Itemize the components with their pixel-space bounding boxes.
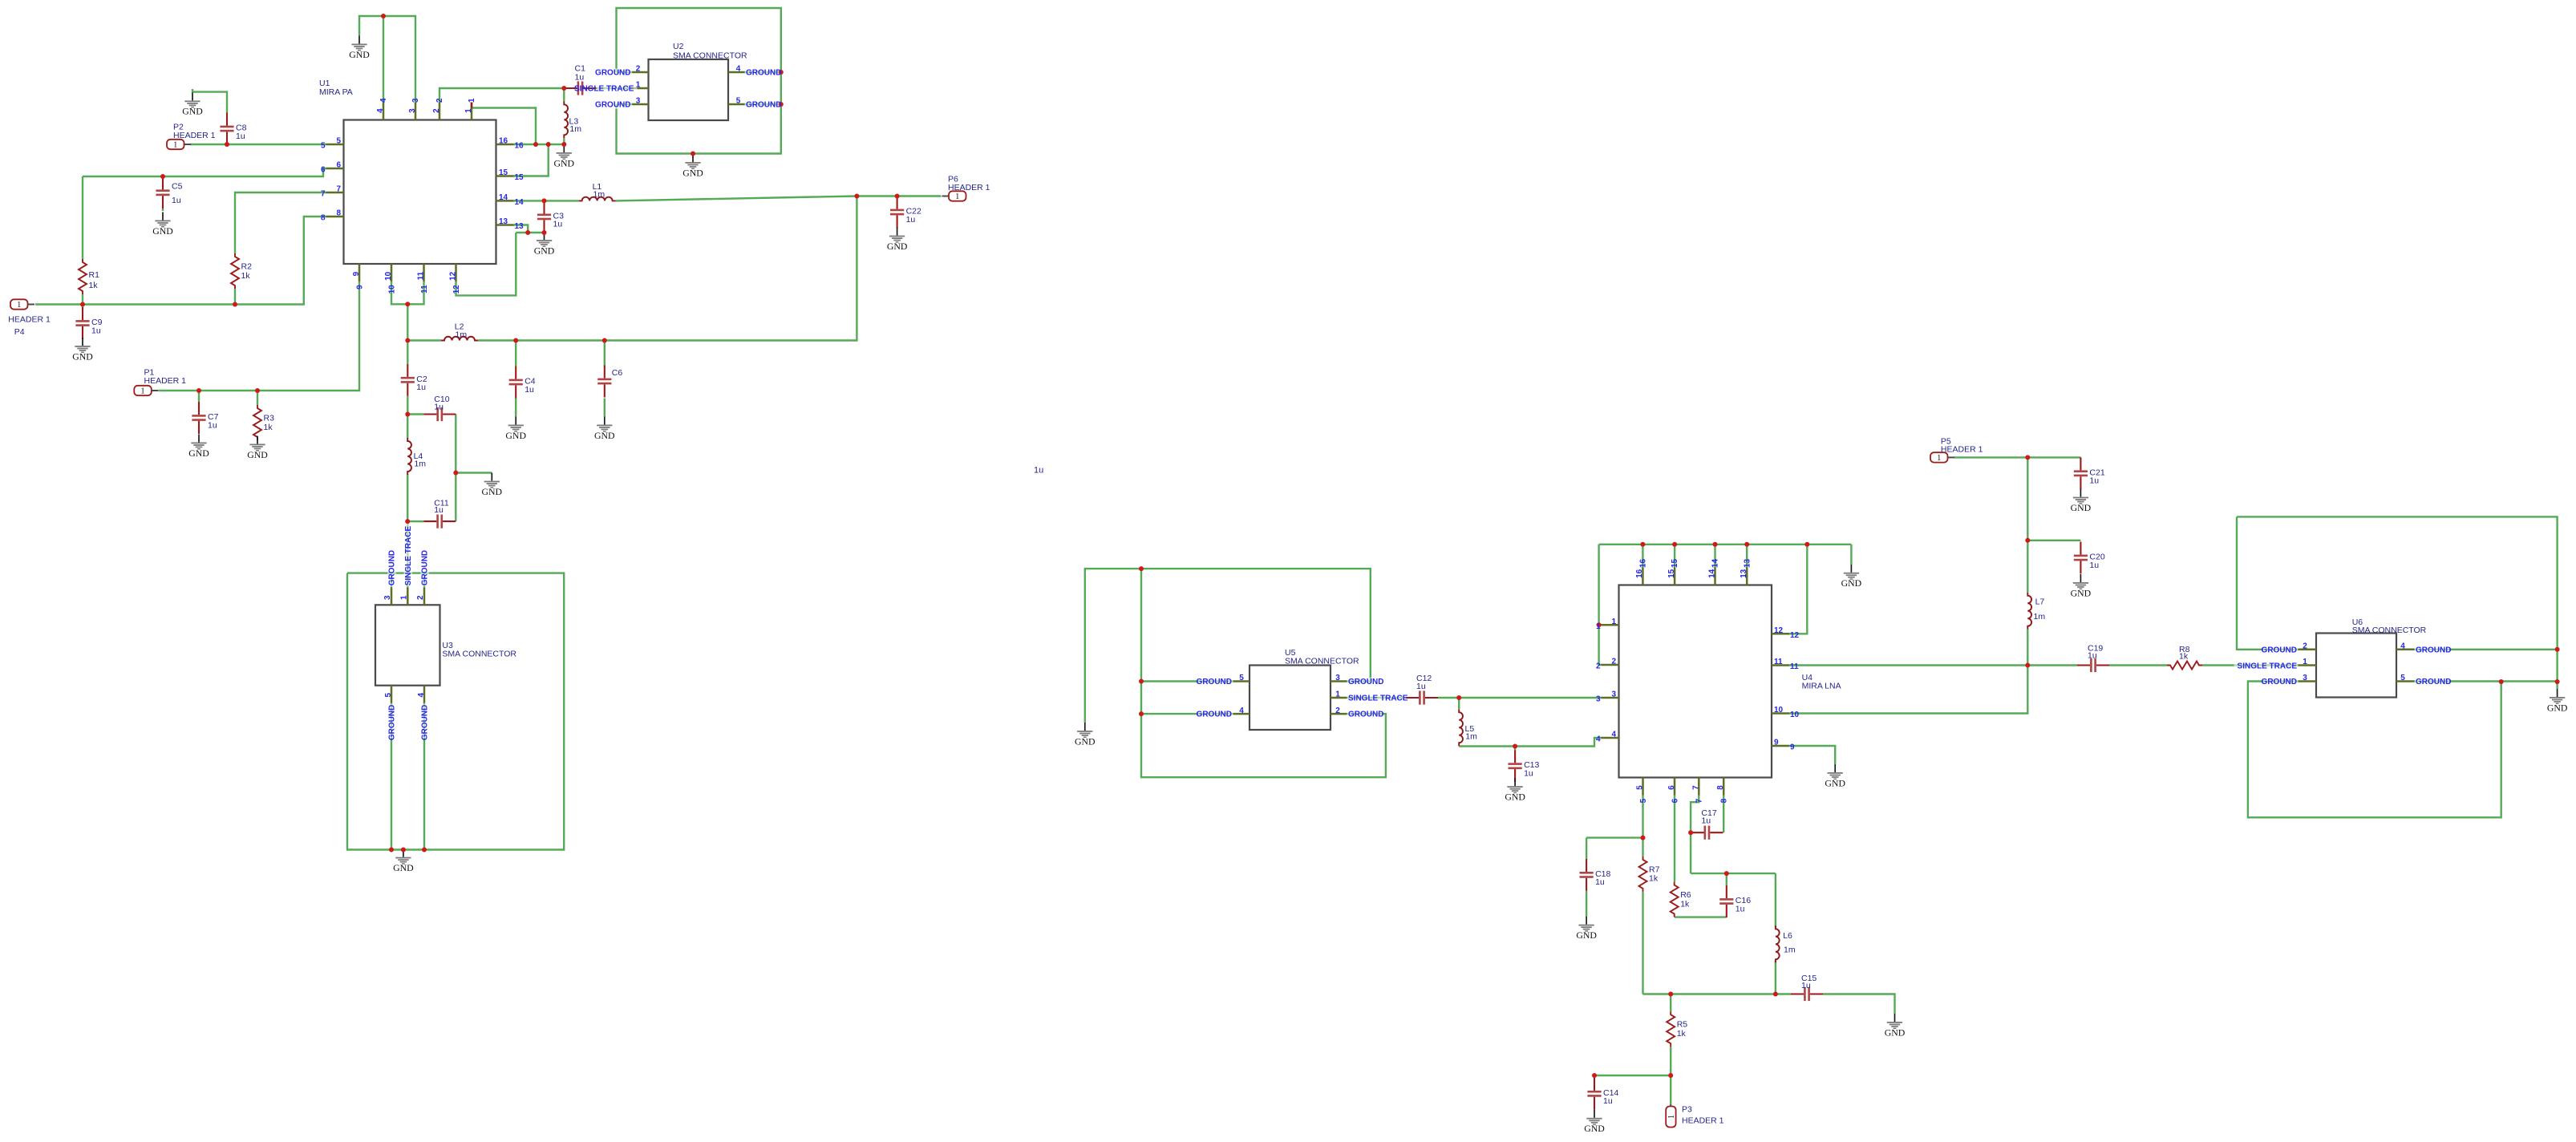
svg-text:1k: 1k xyxy=(1649,874,1659,884)
svg-text:1u: 1u xyxy=(1524,769,1533,779)
svg-text:GND: GND xyxy=(1576,929,1597,941)
svg-text:7: 7 xyxy=(1691,785,1700,790)
svg-text:GND: GND xyxy=(1885,1027,1906,1038)
svg-text:1m: 1m xyxy=(1784,946,1796,955)
svg-text:13: 13 xyxy=(515,222,525,231)
svg-text:13: 13 xyxy=(499,217,508,226)
svg-text:4: 4 xyxy=(376,108,385,113)
svg-text:5: 5 xyxy=(336,137,341,146)
svg-text:12: 12 xyxy=(449,271,458,281)
svg-text:MIRA PA: MIRA PA xyxy=(319,87,353,97)
svg-text:3: 3 xyxy=(636,97,641,106)
svg-text:5: 5 xyxy=(736,97,741,106)
svg-text:1u: 1u xyxy=(208,420,217,430)
svg-text:C6: C6 xyxy=(612,368,623,378)
svg-text:1: 1 xyxy=(2303,658,2307,666)
svg-text:1u: 1u xyxy=(172,196,181,205)
svg-text:1u: 1u xyxy=(1034,466,1043,476)
svg-text:GND: GND xyxy=(887,241,908,252)
svg-text:R7: R7 xyxy=(1649,865,1660,874)
svg-text:GROUND: GROUND xyxy=(746,101,781,110)
svg-text:GROUND: GROUND xyxy=(1197,711,1232,719)
svg-text:1u: 1u xyxy=(525,385,534,395)
svg-text:2: 2 xyxy=(2303,642,2307,651)
svg-text:MIRA LNA: MIRA LNA xyxy=(1802,681,1841,690)
svg-text:7: 7 xyxy=(321,190,326,199)
svg-text:1u: 1u xyxy=(434,505,444,515)
svg-text:3: 3 xyxy=(1335,674,1340,682)
svg-text:R3: R3 xyxy=(264,414,275,423)
svg-text:5: 5 xyxy=(1239,674,1244,682)
svg-text:1u: 1u xyxy=(1416,682,1426,691)
svg-text:3: 3 xyxy=(1611,690,1616,699)
svg-text:1: 1 xyxy=(399,595,408,600)
svg-text:4: 4 xyxy=(1239,707,1244,715)
svg-text:1u: 1u xyxy=(1736,904,1745,913)
svg-text:4: 4 xyxy=(1611,731,1616,739)
svg-text:GND: GND xyxy=(682,167,703,178)
svg-text:SMA CONNECTOR: SMA CONNECTOR xyxy=(1285,657,1359,666)
svg-text:3: 3 xyxy=(411,98,420,103)
svg-text:5: 5 xyxy=(2400,674,2405,682)
svg-text:14: 14 xyxy=(515,198,525,207)
svg-text:GND: GND xyxy=(1841,577,1862,589)
svg-text:L7: L7 xyxy=(2035,597,2045,606)
svg-text:5: 5 xyxy=(384,692,393,697)
svg-text:9: 9 xyxy=(355,285,364,290)
svg-text:14: 14 xyxy=(1707,569,1716,578)
svg-text:1u: 1u xyxy=(1603,1096,1613,1106)
svg-text:3: 3 xyxy=(408,108,417,113)
svg-text:8: 8 xyxy=(336,209,341,218)
svg-text:11: 11 xyxy=(417,271,426,280)
svg-text:1k: 1k xyxy=(241,271,251,281)
svg-text:11: 11 xyxy=(1774,658,1783,666)
svg-text:SINGLE TRACE: SINGLE TRACE xyxy=(2238,662,2298,670)
svg-text:1u: 1u xyxy=(2089,476,2099,486)
svg-text:1: 1 xyxy=(1937,454,1941,463)
svg-text:SINGLE TRACE: SINGLE TRACE xyxy=(574,85,634,94)
svg-text:1k: 1k xyxy=(1680,899,1690,909)
svg-text:GND: GND xyxy=(72,350,93,362)
svg-text:5: 5 xyxy=(1636,785,1645,790)
svg-text:8: 8 xyxy=(1720,798,1729,803)
svg-text:10: 10 xyxy=(384,271,393,281)
svg-text:9: 9 xyxy=(1774,739,1779,747)
svg-text:1u: 1u xyxy=(2088,650,2097,660)
svg-text:4: 4 xyxy=(1596,735,1601,744)
svg-text:HEADER 1: HEADER 1 xyxy=(8,315,51,325)
svg-text:13: 13 xyxy=(1740,569,1748,578)
svg-text:1: 1 xyxy=(464,108,473,113)
svg-text:12: 12 xyxy=(1774,626,1784,635)
svg-text:R1: R1 xyxy=(89,270,100,280)
svg-text:15: 15 xyxy=(499,168,508,177)
svg-text:1: 1 xyxy=(1335,690,1340,699)
svg-text:1m: 1m xyxy=(569,124,581,134)
svg-text:GROUND: GROUND xyxy=(2416,678,2451,686)
svg-text:GROUND: GROUND xyxy=(2262,646,2297,654)
svg-text:1: 1 xyxy=(1667,1115,1676,1119)
svg-text:1u: 1u xyxy=(2089,561,2099,570)
svg-text:2: 2 xyxy=(416,595,425,600)
svg-text:GROUND: GROUND xyxy=(746,69,781,78)
svg-text:16: 16 xyxy=(1639,558,1648,568)
svg-text:GND: GND xyxy=(349,49,370,60)
svg-text:14: 14 xyxy=(1711,558,1720,568)
svg-text:GROUND: GROUND xyxy=(2262,678,2297,686)
svg-text:GND: GND xyxy=(534,245,555,256)
svg-text:GND: GND xyxy=(505,430,526,441)
svg-text:2: 2 xyxy=(1611,658,1616,666)
svg-text:1u: 1u xyxy=(91,326,101,335)
svg-text:4: 4 xyxy=(736,65,741,74)
svg-text:1m: 1m xyxy=(593,189,606,199)
svg-text:GROUND: GROUND xyxy=(388,705,397,740)
svg-text:HEADER 1: HEADER 1 xyxy=(1941,445,1983,455)
svg-text:1u: 1u xyxy=(553,220,563,229)
svg-text:GROUND: GROUND xyxy=(421,705,430,740)
svg-text:L6: L6 xyxy=(1783,931,1792,941)
svg-text:1: 1 xyxy=(1596,622,1601,631)
svg-text:GND: GND xyxy=(1505,792,1525,803)
svg-text:6: 6 xyxy=(321,166,326,175)
svg-text:GND: GND xyxy=(182,106,203,117)
svg-text:5: 5 xyxy=(321,142,326,151)
svg-text:15: 15 xyxy=(1671,558,1679,568)
svg-text:12: 12 xyxy=(1790,631,1800,640)
svg-text:2: 2 xyxy=(1596,662,1601,671)
svg-text:1u: 1u xyxy=(434,403,444,412)
svg-text:SMA CONNECTOR: SMA CONNECTOR xyxy=(442,650,516,659)
svg-text:4: 4 xyxy=(417,692,426,697)
svg-text:SINGLE TRACE: SINGLE TRACE xyxy=(404,526,413,586)
svg-text:16: 16 xyxy=(499,137,508,146)
svg-text:GROUND: GROUND xyxy=(1348,711,1383,719)
svg-text:1u: 1u xyxy=(575,73,585,83)
svg-text:GROUND: GROUND xyxy=(595,101,630,110)
svg-text:GND: GND xyxy=(1075,735,1096,747)
svg-text:5: 5 xyxy=(1639,798,1648,803)
svg-text:12: 12 xyxy=(452,285,461,294)
svg-text:1m: 1m xyxy=(2034,612,2046,622)
svg-text:1u: 1u xyxy=(906,215,916,225)
svg-text:SMA CONNECTOR: SMA CONNECTOR xyxy=(2352,626,2427,635)
svg-text:6: 6 xyxy=(1671,798,1679,803)
svg-text:1: 1 xyxy=(468,98,476,103)
svg-text:1: 1 xyxy=(141,387,145,396)
svg-text:15: 15 xyxy=(515,173,525,182)
svg-text:14: 14 xyxy=(499,193,508,202)
svg-text:GROUND: GROUND xyxy=(1197,678,1232,686)
svg-text:1u: 1u xyxy=(1595,877,1605,887)
svg-text:U2: U2 xyxy=(673,42,684,51)
svg-text:1k: 1k xyxy=(2179,652,2189,662)
svg-text:1: 1 xyxy=(1611,618,1616,626)
svg-text:10: 10 xyxy=(387,285,396,294)
svg-text:1u: 1u xyxy=(1701,816,1711,825)
svg-text:1: 1 xyxy=(636,81,641,90)
svg-text:R2: R2 xyxy=(241,262,253,272)
svg-text:1k: 1k xyxy=(1677,1029,1687,1039)
svg-text:8: 8 xyxy=(321,214,326,223)
svg-text:P4: P4 xyxy=(14,327,25,337)
svg-text:GND: GND xyxy=(1825,777,1845,788)
svg-text:1k: 1k xyxy=(89,281,99,290)
svg-text:7: 7 xyxy=(336,185,341,194)
svg-text:1m: 1m xyxy=(456,330,468,339)
svg-text:1u: 1u xyxy=(416,383,426,392)
svg-text:R6: R6 xyxy=(1680,890,1691,900)
svg-text:16: 16 xyxy=(515,142,525,151)
svg-text:GND: GND xyxy=(482,486,503,497)
svg-text:P3: P3 xyxy=(1682,1105,1692,1115)
svg-text:GND: GND xyxy=(393,862,414,873)
svg-text:GND: GND xyxy=(152,225,173,237)
svg-text:1m: 1m xyxy=(1465,731,1477,741)
svg-text:4: 4 xyxy=(379,98,388,103)
svg-text:15: 15 xyxy=(1667,569,1676,578)
svg-text:GND: GND xyxy=(2071,502,2092,513)
svg-text:GROUND: GROUND xyxy=(2416,646,2451,654)
svg-text:9: 9 xyxy=(352,271,361,276)
svg-text:GROUND: GROUND xyxy=(1348,678,1383,686)
svg-text:16: 16 xyxy=(1635,569,1644,578)
svg-text:13: 13 xyxy=(1743,558,1752,568)
svg-text:4: 4 xyxy=(2400,642,2405,651)
svg-text:HEADER 1: HEADER 1 xyxy=(173,131,216,140)
svg-text:HEADER 1: HEADER 1 xyxy=(144,376,187,386)
svg-text:9: 9 xyxy=(1790,743,1795,752)
svg-text:11: 11 xyxy=(1790,662,1799,671)
svg-text:GROUND: GROUND xyxy=(388,550,397,585)
svg-text:11: 11 xyxy=(420,285,429,294)
svg-text:10: 10 xyxy=(1774,706,1784,715)
svg-text:1u: 1u xyxy=(1801,981,1811,990)
svg-text:GND: GND xyxy=(1584,1123,1605,1134)
svg-text:GND: GND xyxy=(2071,587,2092,598)
svg-text:R5: R5 xyxy=(1677,1020,1688,1030)
svg-text:3: 3 xyxy=(1596,695,1601,704)
svg-text:7: 7 xyxy=(1695,798,1704,803)
svg-text:2: 2 xyxy=(432,108,441,113)
svg-text:2: 2 xyxy=(636,65,641,74)
svg-text:8: 8 xyxy=(1716,785,1725,790)
svg-text:GND: GND xyxy=(188,447,209,459)
svg-text:GND: GND xyxy=(2547,702,2568,713)
svg-text:2: 2 xyxy=(1335,707,1340,715)
svg-text:3: 3 xyxy=(2303,674,2307,682)
svg-text:3: 3 xyxy=(383,595,392,600)
svg-text:GND: GND xyxy=(554,157,575,168)
svg-text:6: 6 xyxy=(336,161,341,170)
svg-text:HEADER 1: HEADER 1 xyxy=(1682,1116,1724,1126)
svg-text:1: 1 xyxy=(955,192,959,201)
svg-text:GROUND: GROUND xyxy=(421,550,430,585)
svg-text:1: 1 xyxy=(17,301,21,310)
svg-text:GROUND: GROUND xyxy=(595,69,630,78)
svg-text:SINGLE TRACE: SINGLE TRACE xyxy=(1348,695,1408,703)
svg-text:1k: 1k xyxy=(264,423,273,432)
svg-text:1: 1 xyxy=(173,141,177,150)
svg-text:1m: 1m xyxy=(414,460,426,469)
svg-text:HEADER 1: HEADER 1 xyxy=(948,183,990,192)
svg-text:GND: GND xyxy=(247,449,268,460)
svg-text:10: 10 xyxy=(1790,711,1800,719)
svg-text:C5: C5 xyxy=(172,182,183,192)
svg-text:1u: 1u xyxy=(236,132,245,141)
svg-text:GND: GND xyxy=(594,430,615,441)
svg-text:6: 6 xyxy=(1667,785,1676,790)
svg-text:2: 2 xyxy=(435,98,444,103)
svg-text:SMA CONNECTOR: SMA CONNECTOR xyxy=(673,51,747,61)
